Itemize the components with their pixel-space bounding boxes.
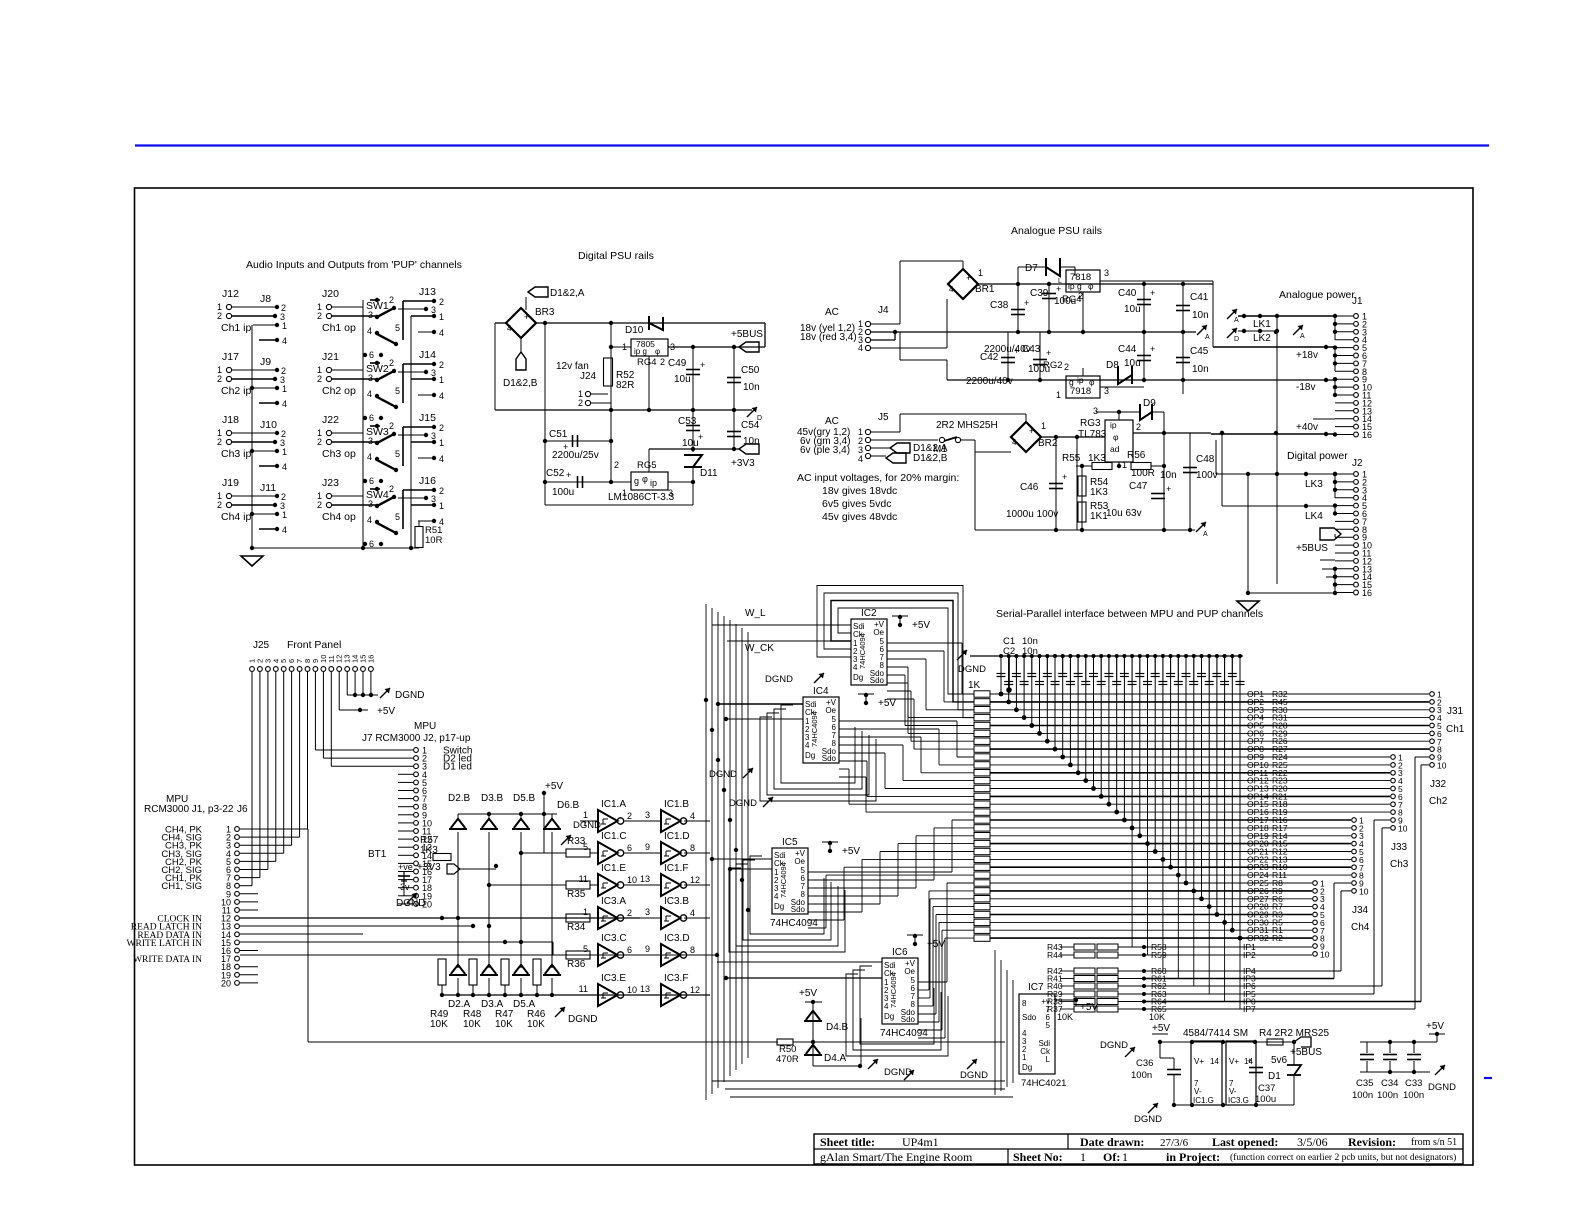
svg-text:3: 3 [368, 310, 373, 320]
svg-text:4: 4 [690, 908, 695, 918]
svg-text:WRITE LATCH IN: WRITE LATCH IN [127, 939, 203, 949]
svg-text:D1&2,A: D1&2,A [550, 288, 585, 299]
svg-text:IC1.A: IC1.A [601, 799, 626, 810]
svg-text:Dg: Dg [884, 1012, 894, 1021]
svg-text:1: 1 [282, 510, 287, 520]
svg-text:4: 4 [282, 462, 287, 472]
svg-text:DGND: DGND [568, 1014, 597, 1025]
svg-text:UP4m1: UP4m1 [902, 1135, 939, 1149]
svg-text:DGND: DGND [958, 664, 986, 675]
svg-text:+5V: +5V [545, 781, 563, 792]
svg-text:+5V: +5V [377, 706, 395, 717]
svg-text:12: 12 [690, 985, 700, 995]
svg-text:DGND: DGND [884, 1067, 912, 1078]
svg-text:1: 1 [439, 438, 444, 448]
svg-text:J1: J1 [1352, 296, 1363, 307]
svg-text:DGND: DGND [960, 1070, 988, 1081]
svg-text:D6.B: D6.B [557, 800, 580, 811]
svg-text:+5V: +5V [912, 620, 930, 631]
svg-text:Ch4 op: Ch4 op [322, 511, 356, 523]
svg-text:φ: φ [1113, 432, 1119, 442]
svg-text:J17: J17 [222, 351, 239, 363]
svg-text:2: 2 [439, 360, 444, 370]
svg-text:D1: D1 [1268, 1071, 1281, 1082]
svg-text:100u: 100u [1054, 296, 1076, 307]
svg-text:1: 1 [1056, 390, 1061, 400]
svg-text:3v: 3v [400, 882, 410, 892]
svg-text:IC3.A: IC3.A [601, 896, 626, 907]
svg-text:A: A [1203, 531, 1208, 538]
svg-text:C48: C48 [1196, 454, 1215, 465]
svg-text:DGND: DGND [1428, 1082, 1456, 1093]
svg-text:5: 5 [395, 386, 400, 396]
svg-text:6: 6 [369, 350, 374, 360]
svg-text:4: 4 [949, 285, 954, 294]
svg-text:10n: 10n [1160, 470, 1177, 481]
svg-text:100n: 100n [1352, 1090, 1373, 1101]
svg-text:Date drawn:: Date drawn: [1080, 1135, 1144, 1149]
svg-text:D7: D7 [1025, 263, 1038, 274]
svg-text:+: + [1014, 346, 1019, 356]
svg-text:10n: 10n [1192, 310, 1209, 321]
svg-text:Oe: Oe [825, 706, 836, 715]
svg-text:6: 6 [369, 476, 374, 486]
svg-text:+5V: +5V [1152, 1023, 1170, 1034]
svg-text:Sdo: Sdo [791, 905, 806, 914]
svg-text:2: 2 [1064, 362, 1069, 372]
svg-text:4: 4 [282, 336, 287, 346]
svg-text:RCM3000 J1, p3-22: RCM3000 J1, p3-22 [144, 804, 234, 815]
svg-text:Dg: Dg [805, 751, 815, 760]
svg-text:10: 10 [627, 875, 637, 885]
svg-text:LK1: LK1 [1253, 319, 1271, 330]
svg-text:+5V: +5V [1080, 1002, 1098, 1013]
svg-text:74HC4094: 74HC4094 [810, 711, 819, 747]
svg-text:J25: J25 [253, 640, 270, 651]
svg-text:10K: 10K [1149, 1012, 1165, 1022]
svg-text:11: 11 [579, 984, 588, 994]
svg-text:9: 9 [645, 842, 650, 852]
svg-text:9: 9 [645, 944, 650, 954]
svg-text:1: 1 [282, 321, 287, 331]
svg-text:D9: D9 [1143, 398, 1156, 409]
svg-text:AC: AC [825, 307, 839, 318]
svg-text:1K3: 1K3 [1088, 453, 1106, 464]
svg-text:2: 2 [627, 811, 632, 821]
svg-text:100n: 100n [1131, 1070, 1152, 1081]
svg-text:V+: V+ [1194, 1057, 1204, 1066]
svg-text:IC1.E: IC1.E [601, 863, 626, 874]
svg-text:74HC4021: 74HC4021 [1021, 1078, 1066, 1089]
svg-text:Ch2: Ch2 [1429, 796, 1448, 807]
svg-text:C42: C42 [980, 352, 999, 363]
svg-text:Of:: Of: [1103, 1150, 1120, 1164]
svg-text:C45: C45 [1190, 346, 1209, 357]
svg-text:DGND: DGND [396, 898, 425, 909]
svg-text:10n: 10n [743, 382, 760, 393]
svg-text:5: 5 [583, 944, 588, 954]
svg-text:V-: V- [1194, 1087, 1202, 1096]
svg-text:4: 4 [690, 811, 695, 821]
svg-text:1: 1 [439, 312, 444, 322]
svg-text:+: + [1056, 284, 1061, 294]
svg-text:10: 10 [1320, 949, 1330, 959]
svg-text:10u: 10u [1124, 304, 1141, 315]
svg-text:IC3.D: IC3.D [664, 933, 690, 944]
svg-text:Last opened:: Last opened: [1212, 1135, 1278, 1149]
svg-text:16: 16 [1362, 588, 1372, 598]
svg-text:C38: C38 [990, 300, 1009, 311]
svg-text:2: 2 [389, 484, 394, 494]
svg-text:J10: J10 [260, 419, 277, 431]
svg-text:6: 6 [627, 843, 632, 853]
svg-text:D4.A: D4.A [824, 1053, 847, 1064]
svg-text:J31: J31 [1447, 706, 1464, 717]
svg-text:+40v: +40v [1296, 422, 1318, 433]
svg-text:10R: 10R [425, 535, 443, 546]
svg-text:+3V3: +3V3 [417, 862, 441, 873]
svg-text:1: 1 [1041, 421, 1046, 431]
svg-text:3: 3 [431, 494, 436, 504]
svg-text:Ch4: Ch4 [1351, 922, 1370, 933]
svg-text:10: 10 [627, 985, 637, 995]
svg-text:Sdo: Sdo [901, 1015, 916, 1024]
svg-text:Oe: Oe [794, 857, 805, 866]
svg-text:C35: C35 [1356, 1078, 1373, 1089]
svg-text:D: D [1234, 336, 1239, 343]
svg-text:4: 4 [858, 454, 863, 464]
svg-text:R34: R34 [567, 922, 586, 933]
svg-text:2: 2 [217, 500, 222, 510]
svg-text:J8: J8 [260, 293, 271, 305]
svg-text:8: 8 [1022, 999, 1027, 1008]
svg-text:2: 2 [389, 295, 394, 305]
svg-text:φ: φ [655, 347, 660, 356]
svg-text:+3V3: +3V3 [731, 458, 755, 469]
svg-text:5: 5 [395, 449, 400, 459]
svg-text:+: + [1247, 1056, 1252, 1066]
svg-text:DGND: DGND [765, 674, 793, 685]
svg-text:11: 11 [579, 874, 588, 884]
svg-text:R36: R36 [567, 959, 586, 970]
svg-text:Serial-Parallel interface betw: Serial-Parallel interface between MPU an… [996, 608, 1263, 620]
svg-text:18v (red 3,4): 18v (red 3,4) [800, 332, 857, 343]
svg-text:g: g [634, 476, 639, 486]
svg-text:V-: V- [1229, 1087, 1237, 1096]
svg-text:IC7: IC7 [1028, 982, 1044, 993]
svg-text:J4: J4 [878, 305, 889, 316]
svg-text:10u: 10u [674, 374, 691, 385]
svg-text:6v (ple 3,4): 6v (ple 3,4) [800, 445, 850, 456]
svg-text:J12: J12 [222, 288, 239, 300]
svg-text:3: 3 [431, 431, 436, 441]
svg-text:470R: 470R [776, 1054, 799, 1065]
svg-text:D1&2,B: D1&2,B [913, 453, 948, 464]
svg-text:Dg: Dg [1022, 1063, 1032, 1072]
svg-text:1: 1 [1122, 1150, 1128, 1164]
svg-text:+5BUS: +5BUS [1296, 543, 1328, 554]
svg-text:+: + [700, 360, 705, 370]
svg-text:IC3.F: IC3.F [664, 973, 688, 984]
svg-text:D4.B: D4.B [826, 1022, 849, 1033]
svg-text:2: 2 [614, 460, 619, 470]
svg-text:IC1.G: IC1.G [1193, 1096, 1214, 1105]
svg-text:13: 13 [640, 874, 650, 884]
svg-text:1: 1 [583, 810, 588, 820]
svg-text:10: 10 [1359, 886, 1369, 896]
svg-text:1: 1 [282, 384, 287, 394]
svg-text:+: + [1062, 472, 1067, 482]
svg-text:2: 2 [217, 437, 222, 447]
svg-text:3: 3 [368, 373, 373, 383]
svg-text:4: 4 [507, 324, 512, 333]
svg-text:5: 5 [395, 323, 400, 333]
svg-text:16: 16 [366, 655, 375, 663]
svg-text:J13: J13 [419, 286, 436, 298]
svg-text:8: 8 [690, 945, 695, 955]
svg-text:C53: C53 [678, 416, 697, 427]
svg-text:BR1: BR1 [975, 284, 995, 295]
svg-text:10K: 10K [430, 1019, 448, 1030]
svg-text:RG4: RG4 [637, 357, 657, 368]
svg-text:Ch1 op: Ch1 op [322, 322, 356, 334]
svg-text:A: A [1205, 334, 1210, 341]
svg-text:2: 2 [317, 311, 322, 321]
svg-text:C44: C44 [1118, 344, 1137, 355]
svg-text:8: 8 [690, 843, 695, 853]
svg-text:2: 2 [627, 908, 632, 918]
svg-text:Digital power: Digital power [1287, 450, 1348, 462]
svg-text:2: 2 [389, 358, 394, 368]
svg-text:J21: J21 [322, 351, 339, 363]
svg-text:10n: 10n [1192, 364, 1209, 375]
svg-text:+ve: +ve [398, 862, 413, 872]
svg-text:D3.B: D3.B [481, 793, 504, 804]
svg-text:5: 5 [1046, 1021, 1051, 1030]
svg-text:10n: 10n [743, 436, 760, 447]
svg-text:BT1: BT1 [368, 849, 387, 860]
svg-text:45v gives 48vdc: 45v gives 48vdc [822, 511, 897, 523]
svg-text:2: 2 [217, 311, 222, 321]
svg-text:Oe: Oe [904, 967, 915, 976]
svg-text:1000u 100v: 1000u 100v [1006, 509, 1058, 520]
svg-text:ip: ip [1110, 420, 1117, 430]
svg-text:1K: 1K [968, 680, 981, 691]
svg-text:+: + [1150, 288, 1155, 298]
svg-text:4: 4 [439, 454, 444, 464]
svg-text:1: 1 [439, 501, 444, 511]
svg-text:IC3.B: IC3.B [664, 896, 689, 907]
svg-text:100u: 100u [552, 487, 574, 498]
svg-text:R4 2R2 MRS25: R4 2R2 MRS25 [1259, 1028, 1329, 1039]
svg-text:+5BUS: +5BUS [731, 329, 763, 340]
svg-text:DGND: DGND [729, 798, 757, 809]
svg-text:+18v: +18v [1296, 350, 1318, 361]
svg-text:C47: C47 [1129, 481, 1148, 492]
svg-text:Dg: Dg [774, 902, 784, 911]
svg-text:J18: J18 [222, 414, 239, 426]
svg-text:Sheet title:: Sheet title: [820, 1135, 875, 1149]
svg-text:IC1.D: IC1.D [664, 831, 690, 842]
svg-text:C41: C41 [1190, 292, 1209, 303]
svg-text:C43: C43 [1022, 344, 1041, 355]
svg-text:+: + [1024, 298, 1029, 308]
svg-text:2: 2 [389, 421, 394, 431]
svg-text:2: 2 [1136, 422, 1141, 432]
svg-text:2R2 MHS25H: 2R2 MHS25H [936, 420, 998, 431]
svg-text:L: L [1046, 1055, 1051, 1064]
svg-text:Sdo: Sdo [870, 676, 885, 685]
svg-text:16: 16 [1362, 430, 1372, 440]
svg-text:AC input voltages, for 20% mar: AC input voltages, for 20% margin: [797, 472, 959, 484]
svg-text:J14: J14 [419, 349, 436, 361]
svg-text:in Project:: in Project: [1166, 1150, 1220, 1164]
svg-text:LK2: LK2 [1253, 333, 1271, 344]
svg-text:C51: C51 [549, 429, 568, 440]
svg-text:IC3.E: IC3.E [601, 973, 626, 984]
svg-text:4: 4 [367, 515, 372, 525]
svg-text:100n: 100n [1377, 1090, 1398, 1101]
svg-text:D5.B: D5.B [513, 793, 536, 804]
svg-text:+: + [1150, 344, 1155, 354]
svg-text:3: 3 [368, 499, 373, 509]
svg-text:Revision:: Revision: [1348, 1135, 1396, 1149]
svg-text:MPU: MPU [414, 721, 436, 732]
svg-text:Front Panel: Front Panel [287, 639, 341, 651]
svg-text:74HC4094: 74HC4094 [779, 862, 788, 898]
svg-text:C33: C33 [1405, 1078, 1422, 1089]
svg-text:4: 4 [282, 399, 287, 409]
svg-text:RG3: RG3 [1080, 418, 1101, 429]
svg-text:5: 5 [395, 512, 400, 522]
svg-text:10u 63v: 10u 63v [1106, 508, 1142, 519]
svg-text:6: 6 [369, 413, 374, 423]
svg-text:2: 2 [317, 437, 322, 447]
svg-text:82R: 82R [616, 380, 634, 391]
svg-text:4: 4 [439, 328, 444, 338]
svg-text:IC3.C: IC3.C [601, 933, 627, 944]
svg-text:2: 2 [439, 297, 444, 307]
svg-text:J33: J33 [1391, 842, 1408, 853]
svg-text:IC1.C: IC1.C [601, 831, 627, 842]
svg-text:Ch2 ip: Ch2 ip [221, 385, 252, 397]
svg-text:+: + [524, 312, 529, 322]
svg-text:1: 1 [583, 907, 588, 917]
svg-text:IP7: IP7 [1243, 1004, 1256, 1014]
svg-text:Audio Inputs and Outputs from: Audio Inputs and Outputs from 'PUP' chan… [246, 259, 462, 271]
svg-text:ad: ad [1110, 444, 1120, 454]
svg-text:C39: C39 [1030, 288, 1049, 299]
svg-text:J34: J34 [1352, 905, 1369, 916]
svg-text:IC1.B: IC1.B [664, 799, 689, 810]
svg-text:74HC4094: 74HC4094 [889, 972, 898, 1008]
svg-text:ip: ip [1077, 375, 1084, 385]
svg-text:4: 4 [367, 389, 372, 399]
svg-text:+: + [966, 273, 971, 283]
svg-text:IC4: IC4 [813, 686, 829, 697]
svg-text:DGND: DGND [1134, 1114, 1162, 1125]
svg-text:J2: J2 [1352, 458, 1363, 469]
svg-text:2: 2 [439, 423, 444, 433]
svg-text:W_CK: W_CK [745, 643, 774, 654]
svg-text:C34: C34 [1381, 1078, 1398, 1089]
svg-text:R56: R56 [1127, 450, 1146, 461]
svg-text:+: + [1166, 484, 1171, 494]
svg-text:J9: J9 [260, 356, 271, 368]
svg-text:4: 4 [858, 343, 863, 353]
svg-text:A: A [1300, 333, 1305, 340]
svg-text:Analogue PSU rails: Analogue PSU rails [1011, 225, 1102, 237]
svg-text:10: 10 [1398, 823, 1408, 833]
svg-text:C50: C50 [741, 365, 760, 376]
svg-text:2: 2 [439, 486, 444, 496]
svg-text:C36: C36 [1136, 1058, 1153, 1069]
svg-text:C52: C52 [546, 468, 565, 479]
svg-text:3/5/06: 3/5/06 [1297, 1135, 1328, 1149]
svg-text:1K3: 1K3 [1090, 487, 1108, 498]
svg-text:D2.B: D2.B [448, 793, 471, 804]
svg-text:C49: C49 [668, 358, 687, 369]
svg-text:+: + [566, 470, 571, 480]
svg-text:14: 14 [1210, 1057, 1219, 1066]
svg-text:2200u/40v: 2200u/40v [966, 376, 1013, 387]
svg-text:IC5: IC5 [782, 837, 798, 848]
svg-text:D1 led: D1 led [443, 762, 472, 773]
svg-text:IC3.G: IC3.G [1228, 1096, 1249, 1105]
svg-text:J16: J16 [419, 475, 436, 487]
svg-text:4: 4 [367, 452, 372, 462]
svg-text:Ch1: Ch1 [1446, 724, 1465, 735]
svg-text:1K3: 1K3 [420, 845, 438, 856]
svg-text:CH1, SIG: CH1, SIG [161, 881, 202, 892]
svg-text:A: A [1234, 317, 1239, 324]
svg-text:gAlan Smart/The Engine Room: gAlan Smart/The Engine Room [820, 1150, 973, 1164]
svg-text:3: 3 [368, 436, 373, 446]
svg-text:IC6: IC6 [892, 947, 908, 958]
svg-text:C46: C46 [1020, 482, 1039, 493]
svg-text:W_L: W_L [745, 608, 766, 619]
svg-text:7918: 7918 [1070, 386, 1091, 397]
svg-text:BR2: BR2 [1038, 438, 1058, 449]
svg-text:100v: 100v [1196, 470, 1218, 481]
svg-text:Sdo: Sdo [1022, 1013, 1037, 1022]
svg-text:27/3/6: 27/3/6 [1160, 1137, 1189, 1149]
svg-text:1: 1 [282, 447, 287, 457]
svg-text:4: 4 [1012, 438, 1017, 447]
svg-text:2: 2 [317, 374, 322, 384]
svg-text:J6: J6 [237, 804, 248, 815]
svg-text:+: + [1046, 348, 1051, 358]
svg-text:RG5: RG5 [637, 460, 657, 471]
svg-text:Ch2 op: Ch2 op [322, 385, 356, 397]
svg-text:D11: D11 [700, 468, 718, 479]
svg-text:Oe: Oe [873, 628, 884, 637]
svg-text:J22: J22 [322, 414, 339, 426]
svg-text:4: 4 [367, 326, 372, 336]
svg-text:4: 4 [282, 525, 287, 535]
svg-text:R2: R2 [1272, 933, 1283, 943]
svg-text:ip g: ip g [1068, 281, 1082, 291]
svg-text:10K: 10K [495, 1019, 513, 1030]
svg-text:J7 RCM3000 J2, p17-up: J7 RCM3000 J2, p17-up [362, 733, 471, 744]
svg-text:+5V: +5V [878, 698, 896, 709]
svg-text:1: 1 [1122, 460, 1127, 470]
svg-text:TL783: TL783 [1078, 429, 1107, 440]
svg-text:74HC4094: 74HC4094 [858, 633, 867, 669]
svg-text:J11: J11 [260, 482, 276, 494]
svg-text:R35: R35 [567, 889, 586, 900]
svg-text:2: 2 [217, 374, 222, 384]
